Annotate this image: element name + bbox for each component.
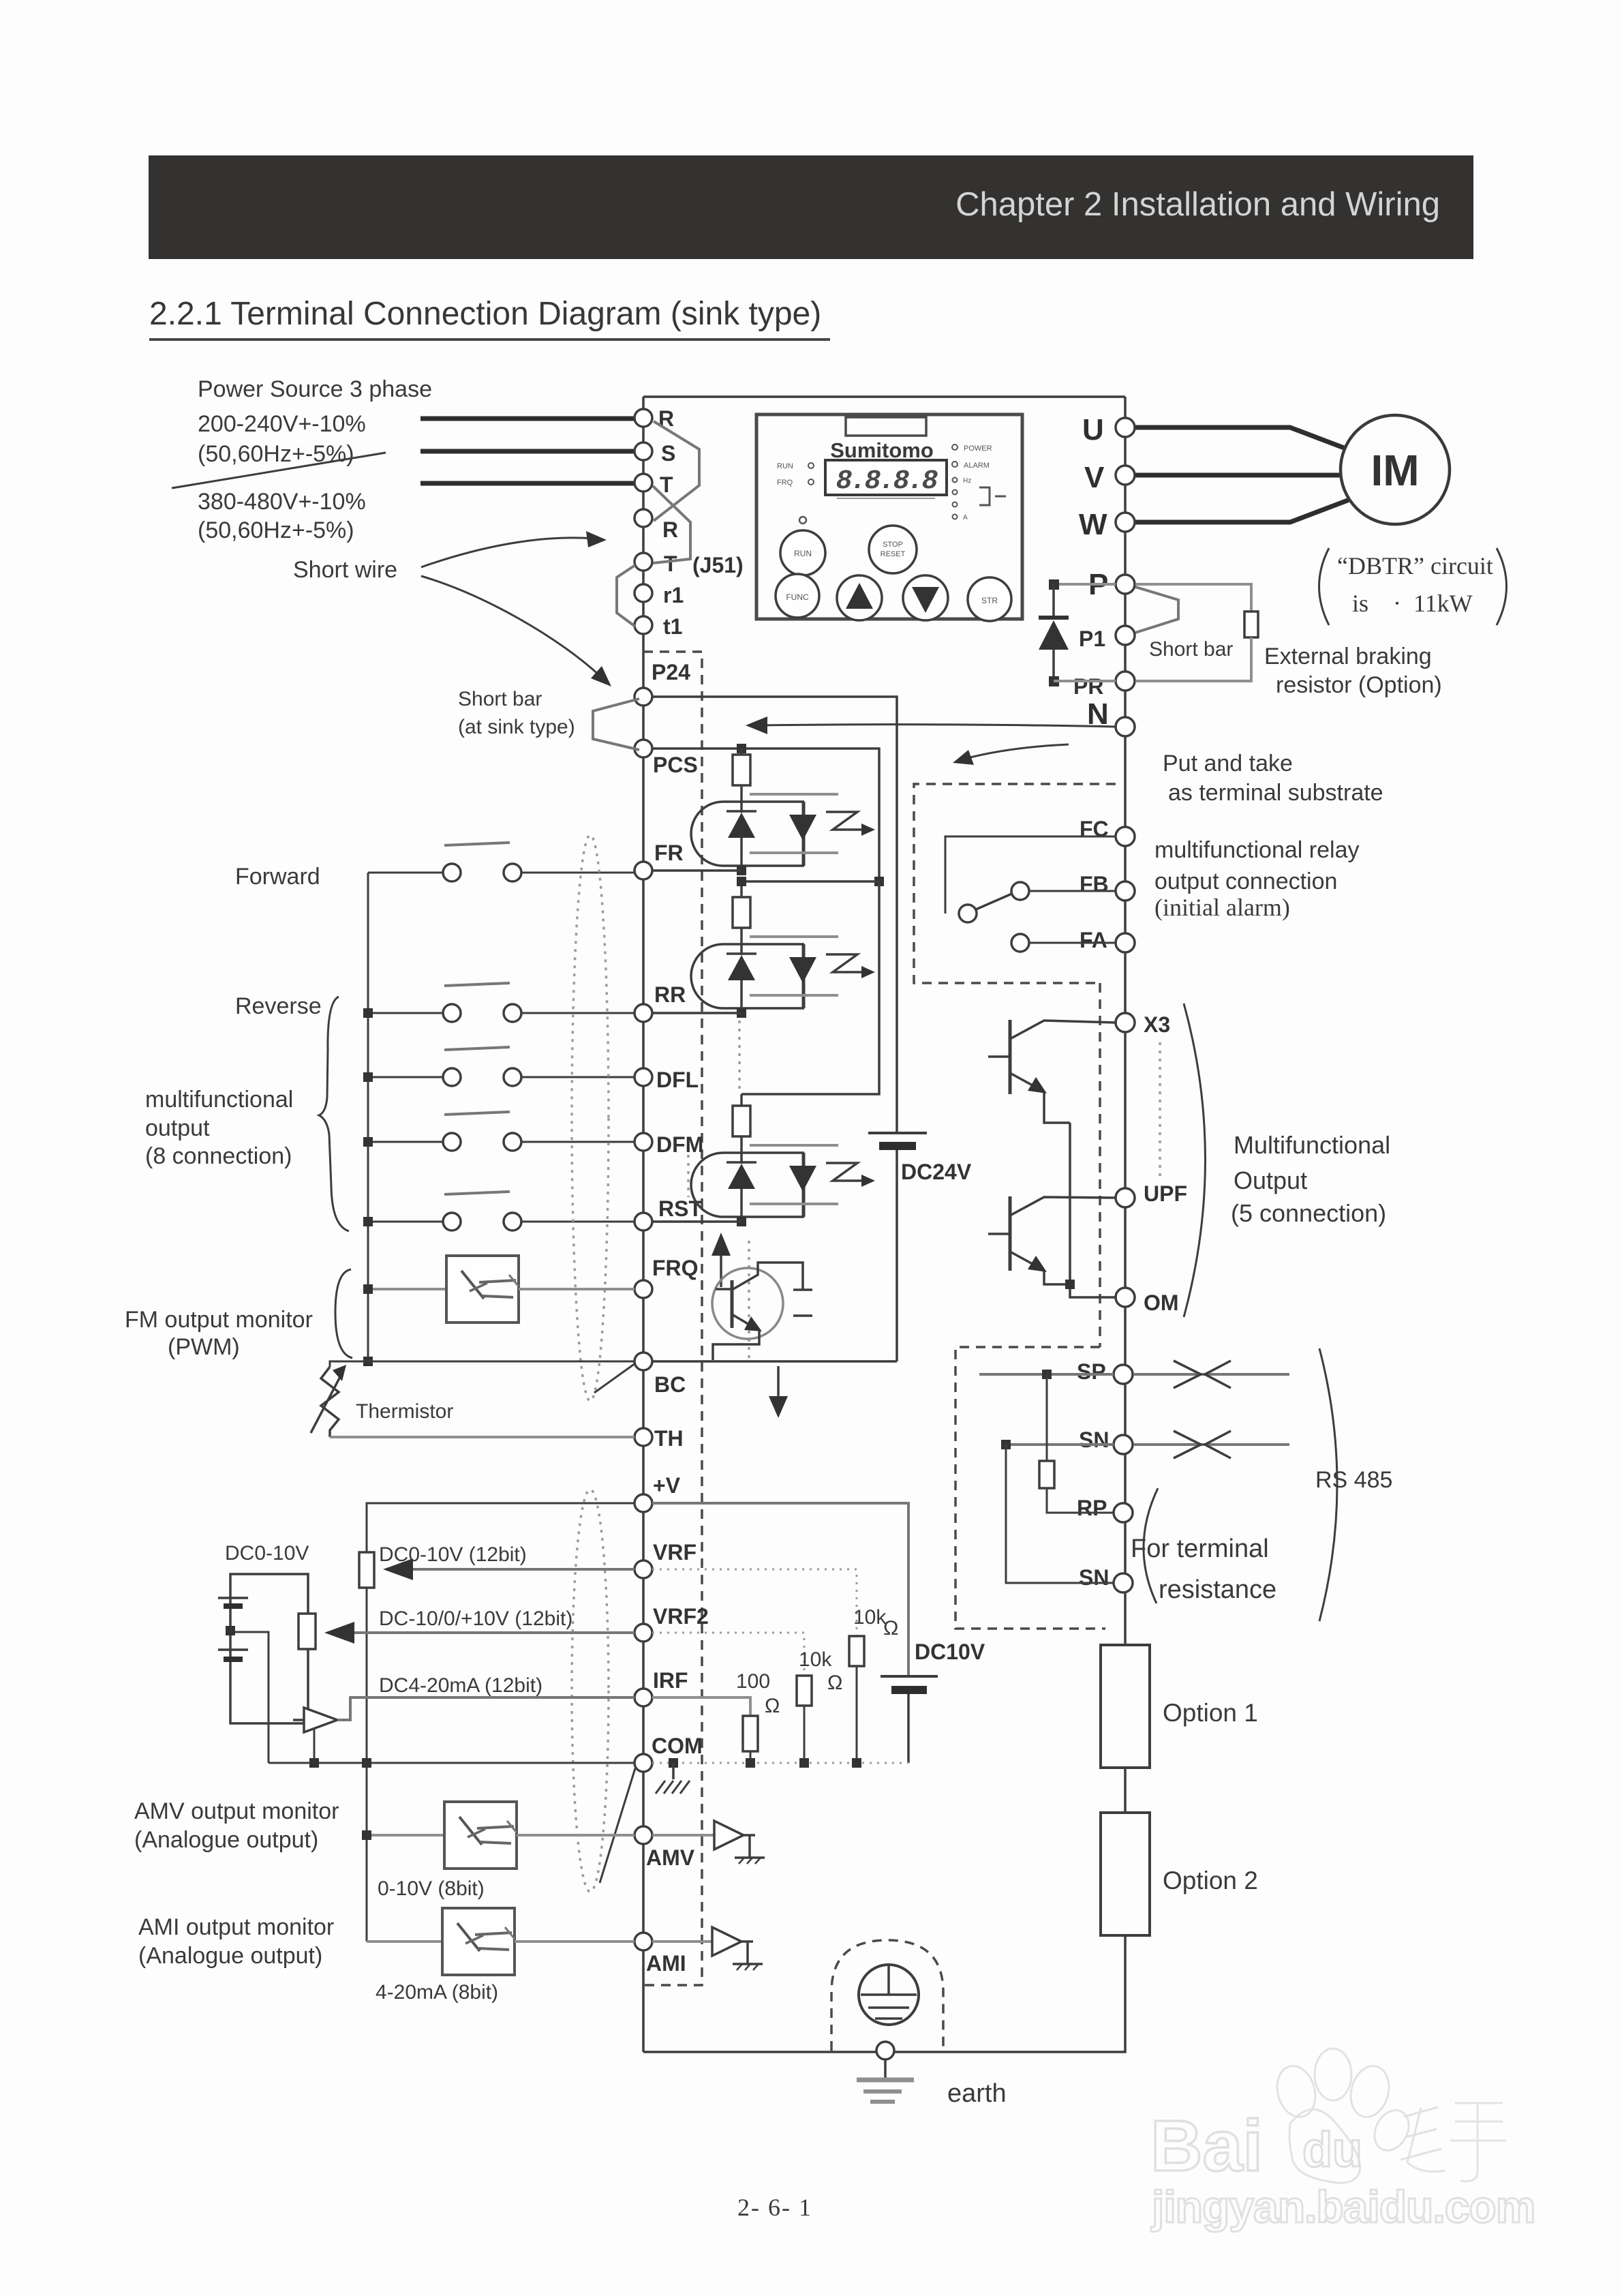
ext braking wire bottom: [1135, 637, 1251, 681]
svg-text:(5 connection): (5 connection): [1231, 1199, 1386, 1227]
keypad top window: [846, 417, 926, 436]
svg-text:is · 11kW: is · 11kW: [1352, 590, 1473, 617]
svg-text:Sumitomo: Sumitomo: [830, 438, 934, 462]
brace multifunctional output 5conn: [1184, 1003, 1206, 1317]
svg-text:T: T: [664, 552, 677, 576]
keypad panel box: [756, 414, 1022, 619]
arrow down below BC: [777, 1366, 780, 1399]
bus resistor: [359, 1552, 374, 1588]
terminal AMI: [634, 1933, 652, 1950]
IRF wire: [337, 1697, 634, 1720]
button RUN: [780, 530, 825, 575]
relay blade: [976, 893, 1013, 909]
svg-text:earth: earth: [947, 2079, 1007, 2108]
DC10V battery: [881, 1675, 938, 1678]
svg-text:RESET: RESET: [881, 550, 906, 558]
svg-text:COM: COM: [652, 1734, 703, 1758]
COM junction dots: [746, 1758, 755, 1768]
svg-text:DFM: DFM: [656, 1132, 703, 1157]
AMV wire: [367, 1834, 444, 1837]
BC wire left: [330, 1361, 634, 1367]
BC return wire: [652, 1360, 897, 1363]
svg-text:Ω: Ω: [883, 1617, 898, 1640]
terminal +V: [634, 1494, 652, 1512]
svg-text:Multifunctional: Multifunctional: [1234, 1131, 1390, 1159]
RS485 dashed box: [955, 1347, 1105, 1629]
svg-text:Short bar: Short bar: [1149, 638, 1233, 661]
bottom wire to earth: [643, 1935, 1125, 2052]
shield ellipse digital: [572, 835, 609, 1401]
FM wire to FRQ: [519, 1288, 634, 1290]
thermistor RT: [321, 1367, 339, 1437]
LED ALARM: [952, 462, 958, 467]
terminal RP: [1114, 1503, 1133, 1522]
FM transistor: [712, 1268, 783, 1339]
put and take arrow 2: [965, 744, 1069, 759]
LED small row: [953, 478, 958, 483]
svg-text:RR: RR: [654, 982, 686, 1007]
+V wire right to DC10V: [652, 1503, 908, 1676]
svg-text:FB: FB: [1080, 872, 1109, 896]
junction opto2: [737, 877, 746, 886]
relay FB wire: [1029, 890, 1116, 892]
divider slant line: [172, 453, 386, 488]
svg-text:RUN: RUN: [777, 462, 793, 470]
svg-text:X3: X3: [1144, 1012, 1170, 1037]
pot resistor: [299, 1614, 316, 1649]
protective earth symbol: [859, 1965, 919, 2025]
button FUNC: [776, 574, 819, 618]
IRF right gray to 100: [652, 1697, 750, 1716]
SP wire right with RS485 arrows: [1134, 1373, 1289, 1376]
short wire jumper A (R to R): [654, 421, 699, 521]
FM output wire: [368, 1288, 446, 1290]
svg-text:OM: OM: [1144, 1290, 1179, 1315]
terminal FRQ: [634, 1280, 652, 1298]
RR row wire: [652, 1012, 741, 1014]
relay dashed box: [914, 784, 1116, 983]
AMI buffer: [652, 1940, 712, 1943]
potentiometer box: [230, 1574, 308, 1723]
option 2 box: [1101, 1813, 1150, 1935]
svg-text:multifunctional relay: multifunctional relay: [1154, 837, 1359, 863]
terminal FB: [1116, 881, 1135, 901]
DBTR note parens: [1319, 548, 1330, 625]
terminal UPF: [1116, 1188, 1135, 1207]
svg-text:Reverse: Reverse: [235, 993, 322, 1019]
motor wire V: [1135, 473, 1341, 478]
terminal PCS: [634, 740, 652, 757]
svg-text:Put and take: Put and take: [1163, 751, 1293, 776]
svg-text:200-240V+-10%: 200-240V+-10%: [198, 411, 366, 437]
COM wire: [269, 1762, 634, 1764]
junction COM bus: [362, 1758, 371, 1768]
junction FM bus: [363, 1284, 373, 1294]
svg-text:STR: STR: [981, 596, 998, 605]
amp triangle: [293, 1719, 304, 1721]
VRF wire with arrow: [413, 1568, 634, 1571]
terminal FR: [634, 862, 652, 879]
svg-text:jingyan.baidu.com: jingyan.baidu.com: [1150, 2181, 1535, 2232]
svg-text:(PWM): (PWM): [168, 1334, 240, 1360]
svg-text:(at sink type): (at sink type): [458, 716, 575, 738]
svg-text:Short bar: Short bar: [458, 688, 542, 710]
svg-text:380-480V+-10%: 380-480V+-10%: [198, 489, 366, 515]
terminal P24: [634, 688, 652, 706]
dot above RUN button: [799, 517, 806, 524]
svg-text:For terminal: For terminal: [1131, 1535, 1269, 1563]
wire option1-option2: [1124, 1768, 1127, 1813]
svg-text:IRF: IRF: [653, 1668, 688, 1693]
svg-text:POWER: POWER: [964, 444, 992, 453]
SN wire left: [1006, 1443, 1114, 1446]
VRF right dotted to 10k: [652, 1569, 857, 1636]
svg-text:V: V: [1084, 461, 1105, 494]
terminal SN 2: [1114, 1573, 1133, 1592]
svg-text:AMI output monitor: AMI output monitor: [138, 1914, 334, 1940]
terminal TH: [634, 1428, 652, 1446]
FR row wire: [652, 869, 741, 872]
terminal R: [634, 409, 652, 427]
ext braking wire top: [1135, 584, 1251, 611]
wire SN2 to option1: [1124, 1592, 1127, 1645]
motor wire U: [1135, 427, 1349, 450]
brace multifunctional input: [319, 997, 349, 1231]
terminal T: [634, 474, 652, 492]
svg-text:Option 1: Option 1: [1163, 1699, 1258, 1727]
svg-text:BC: BC: [654, 1372, 686, 1397]
terminal t1: [634, 616, 652, 634]
terminal AMV: [634, 1826, 652, 1844]
opto common wire 2: [741, 880, 879, 883]
analog bus: [366, 1588, 368, 1942]
pot junction: [226, 1626, 235, 1635]
svg-text:(50,60Hz+-5%): (50,60Hz+-5%): [198, 517, 354, 543]
DC24V battery: [868, 1132, 927, 1134]
junction COM amp: [309, 1758, 319, 1768]
svg-text:Power Source 3 phase: Power Source 3 phase: [198, 376, 432, 402]
svg-text:UPF: UPF: [1144, 1181, 1187, 1206]
svg-text:W: W: [1079, 508, 1107, 541]
svg-text:Thermistor: Thermistor: [356, 1400, 453, 1423]
button DOWN: [903, 575, 948, 620]
relay contact pivot: [959, 905, 977, 922]
switch DFL: [444, 1047, 510, 1050]
svg-text:Ω: Ω: [765, 1695, 780, 1717]
svg-text:10k: 10k: [853, 1606, 887, 1629]
svg-text:10k: 10k: [799, 1648, 832, 1671]
svg-text:Short wire: Short wire: [293, 557, 397, 583]
svg-text:Output: Output: [1234, 1166, 1307, 1194]
terminal S: [634, 442, 652, 460]
svg-text:du: du: [1302, 2123, 1362, 2177]
svg-text:DC0-10V: DC0-10V: [225, 1542, 309, 1565]
svg-text:SP: SP: [1077, 1359, 1106, 1384]
right terminal rail wire: [1124, 397, 1127, 1592]
COM ground: [669, 1758, 678, 1768]
terminal SP: [1114, 1365, 1133, 1384]
resistor 100 ohm: [743, 1716, 758, 1751]
button UP: [837, 575, 882, 620]
terminal OM: [1116, 1288, 1135, 1307]
junction opto1 FR row: [737, 866, 746, 875]
short bar (at sink type): [593, 699, 639, 750]
terminal P1: [1116, 626, 1135, 645]
switch DFM: [444, 1112, 510, 1115]
RST row wire: [652, 1220, 741, 1223]
power wire T: [420, 481, 634, 486]
short wire arrow 2: [421, 576, 601, 677]
motor wire W: [1135, 500, 1349, 522]
svg-text:output: output: [145, 1115, 210, 1141]
svg-text:PCS: PCS: [653, 753, 698, 777]
LED bracket mark: [979, 487, 990, 505]
svg-text:Chapter 2 Installation and Wir: Chapter 2 Installation and Wiring: [955, 186, 1440, 223]
junction emitter bus: [1065, 1280, 1075, 1289]
N wire with arrow (put and take): [763, 725, 1116, 727]
short wire jumper B (T to T J51): [653, 486, 690, 563]
TH wire: [330, 1436, 634, 1438]
SN2 link wire: [1006, 1445, 1114, 1583]
dotted continuation X3-UPF: [1159, 1042, 1161, 1181]
relay contact FA: [1011, 934, 1029, 952]
opto common bus 2: [741, 881, 879, 1094]
display underline marks: [837, 498, 935, 499]
COM right dotted: [652, 1762, 908, 1764]
svg-text:SN: SN: [1079, 1428, 1109, 1452]
shield to BC diagonal: [594, 1363, 635, 1393]
PCS wire to opto common bus: [652, 749, 879, 881]
terminal VRF2: [634, 1624, 652, 1642]
terminal DFM: [634, 1133, 652, 1151]
svg-text:2.2.1 Terminal Connection Diag: 2.2.1 Terminal Connection Diagram (sink …: [149, 296, 821, 332]
svg-text:FC: FC: [1080, 817, 1109, 841]
resistor 10k VRF: [849, 1636, 864, 1666]
svg-text:AMV output monitor: AMV output monitor: [134, 1798, 339, 1824]
svg-text:RS 485: RS 485: [1315, 1467, 1392, 1493]
svg-text:FUNC: FUNC: [786, 592, 809, 602]
watermark paw: [1272, 2061, 1321, 2121]
input bus: [367, 873, 369, 1361]
svg-text:FRQ: FRQ: [652, 1256, 699, 1280]
svg-text:resistor (Option): resistor (Option): [1276, 672, 1442, 698]
AMI meter: [442, 1908, 515, 1975]
pot wiper wire: [235, 1632, 269, 1763]
svg-text:as terminal substrate: as terminal substrate: [1168, 780, 1383, 806]
svg-text:PR: PR: [1073, 674, 1103, 699]
P24 wire to DC24V bus: [652, 697, 897, 1133]
ext braking resistor: [1244, 611, 1258, 637]
svg-text:t1: t1: [663, 614, 682, 639]
earth ground symbol: [884, 2059, 887, 2079]
terminal P: [1116, 575, 1135, 594]
svg-text:U: U: [1082, 413, 1104, 447]
diode junction bottom: [1049, 676, 1059, 686]
optocoupler RR: [691, 897, 875, 1013]
AMI wire: [367, 1940, 442, 1943]
terminal VRF: [634, 1560, 652, 1578]
relay FC wire: [945, 836, 1116, 913]
junction opto3 RST row: [737, 1217, 746, 1226]
+V wire: [367, 1503, 634, 1552]
svg-text:FR: FR: [654, 841, 684, 865]
svg-text:multifunctional: multifunctional: [145, 1087, 293, 1113]
SN junction: [1001, 1440, 1011, 1449]
FRQ transistor arrow up: [720, 1256, 722, 1287]
svg-text:R: R: [662, 517, 678, 542]
svg-text:DC-10/0/+10V (12bit): DC-10/0/+10V (12bit): [379, 1607, 572, 1630]
terminal FC: [1116, 827, 1135, 846]
svg-text:100: 100: [736, 1670, 770, 1693]
svg-text:AMV: AMV: [646, 1845, 695, 1870]
switch RST: [444, 1192, 510, 1194]
dotted continuation opto area: [738, 1021, 741, 1091]
button STR: [968, 577, 1011, 621]
VRF2 wire with arrow: [354, 1631, 634, 1634]
svg-text:S: S: [661, 441, 675, 466]
SP junction: [1042, 1370, 1052, 1379]
svg-text:(Analogue output): (Analogue output): [138, 1943, 322, 1969]
svg-text:RP: RP: [1077, 1496, 1107, 1520]
terminal resistance bracket: [1144, 1488, 1158, 1603]
svg-text:DC24V: DC24V: [901, 1160, 972, 1184]
relay FA wire: [1029, 942, 1116, 944]
svg-text:(initial alarm): (initial alarm): [1154, 894, 1290, 921]
FM meter: [446, 1256, 519, 1323]
svg-text:P1: P1: [1079, 626, 1105, 651]
svg-text:Hz: Hz: [963, 477, 971, 485]
SP wire left: [979, 1373, 1114, 1376]
terminal V: [1116, 466, 1135, 485]
terminal X3: [1116, 1013, 1135, 1032]
RS485 brace: [1319, 1348, 1337, 1621]
optocoupler RST: [691, 1106, 875, 1222]
svg-text:SN: SN: [1079, 1565, 1109, 1590]
arrow pair SP: [1174, 1361, 1201, 1388]
transistor Q2 (UPF): [1009, 1196, 1012, 1271]
svg-text:r1: r1: [663, 583, 684, 607]
arrow pair SN: [1174, 1431, 1201, 1458]
resistor 10k VRF2: [797, 1676, 812, 1706]
emitter bus: [1070, 1123, 1116, 1297]
svg-text:FRQ: FRQ: [777, 479, 793, 487]
FM bracket: [335, 1269, 352, 1358]
terminal RST: [634, 1213, 652, 1230]
svg-text:resistance: resistance: [1159, 1575, 1276, 1604]
svg-text:DC10V: DC10V: [915, 1640, 985, 1664]
svg-text:VRF2: VRF2: [653, 1604, 709, 1629]
svg-text:Ω: Ω: [827, 1672, 842, 1694]
svg-text:External braking: External braking: [1264, 644, 1432, 669]
dashed terminal strip box: [643, 652, 702, 1985]
terminal T (J51): [634, 553, 652, 571]
svg-text:Option 2: Option 2: [1163, 1867, 1258, 1894]
svg-text:DC4-20mA (12bit): DC4-20mA (12bit): [379, 1674, 542, 1697]
svg-text:FM output monitor: FM output monitor: [125, 1307, 313, 1333]
svg-text:output connection: output connection: [1154, 868, 1337, 894]
terminating resistor R term: [1039, 1461, 1054, 1488]
motor IM: [1341, 415, 1450, 524]
left terminal rail wire: [642, 397, 645, 2052]
VRF2 right dotted to 10k: [652, 1633, 804, 1676]
watermark jingyan char 1: [1401, 2103, 1506, 2181]
terminating resistor wire: [1046, 1374, 1048, 1461]
terminal SN: [1114, 1435, 1133, 1454]
svg-text:VRF: VRF: [653, 1540, 697, 1565]
short bar P-P1: [1135, 587, 1178, 633]
svg-text:(50,60Hz+-5%): (50,60Hz+-5%): [198, 441, 354, 467]
terminal BC: [634, 1353, 652, 1370]
diode D1: [1052, 584, 1055, 618]
opto1 top stub: [740, 749, 743, 755]
7-seg display frame: [825, 460, 947, 495]
pot battery marks: [218, 1597, 248, 1599]
svg-text:FA: FA: [1080, 928, 1107, 952]
optocoupler FR: [691, 755, 875, 871]
svg-text:A: A: [963, 514, 968, 522]
opto3 top stub: [740, 1094, 743, 1106]
svg-text:RUN: RUN: [794, 549, 812, 558]
AMV buffer: [652, 1834, 714, 1837]
dotted continuation opto-BC: [748, 1241, 750, 1359]
AMV meter: [444, 1802, 517, 1869]
relay contact FB: [1011, 882, 1029, 900]
SN wire right with RS485 arrows: [1134, 1443, 1289, 1446]
terminal r1: [634, 584, 652, 602]
wire diode to PR: [1054, 680, 1116, 682]
svg-text:ALARM: ALARM: [964, 462, 990, 470]
svg-text:TH: TH: [654, 1426, 684, 1451]
inverter top edge wire: [643, 395, 1125, 398]
svg-text:+V: +V: [653, 1473, 681, 1498]
svg-text:“DBTR” circuit: “DBTR” circuit: [1337, 552, 1493, 579]
protective earth dashed dome: [831, 1940, 943, 2051]
svg-text:Forward: Forward: [235, 864, 320, 890]
earth terminal: [876, 2042, 894, 2059]
svg-text:(Analogue output): (Analogue output): [134, 1827, 318, 1853]
svg-text:(J51): (J51): [692, 553, 744, 577]
title underline: [149, 338, 830, 341]
terminal RR: [634, 1004, 652, 1022]
LED POWER: [952, 444, 958, 450]
junction PCS/opto1: [737, 744, 746, 753]
shield ellipse analog: [572, 1490, 609, 1892]
diode junction top: [1049, 579, 1059, 590]
svg-text:0-10V (8bit): 0-10V (8bit): [378, 1877, 485, 1900]
svg-text:DFL: DFL: [656, 1068, 699, 1092]
button STOP/RESET: [869, 526, 917, 573]
junction BC bus: [363, 1357, 373, 1366]
svg-text:IM: IM: [1371, 446, 1419, 495]
dotted continuation DFM-RST: [687, 1155, 690, 1197]
terminal U: [1116, 418, 1135, 437]
diode wire from P: [1054, 583, 1116, 586]
terminal W: [1116, 513, 1135, 532]
svg-text:STOP: STOP: [883, 541, 903, 549]
terminal FA: [1116, 933, 1135, 952]
power wire R: [420, 417, 634, 421]
opto common bus junction: [874, 877, 884, 886]
option 1 box: [1101, 1645, 1150, 1768]
terminal DFL: [634, 1068, 652, 1086]
header bar: [149, 155, 1473, 259]
junction opto2 RR row: [737, 1008, 746, 1018]
opto2 top stub: [740, 881, 743, 897]
switch Forward: [444, 843, 510, 845]
shield to COM diagonal: [600, 1768, 635, 1883]
switch Reverse: [444, 983, 510, 986]
svg-text:DC0-10V (12bit): DC0-10V (12bit): [379, 1543, 527, 1566]
